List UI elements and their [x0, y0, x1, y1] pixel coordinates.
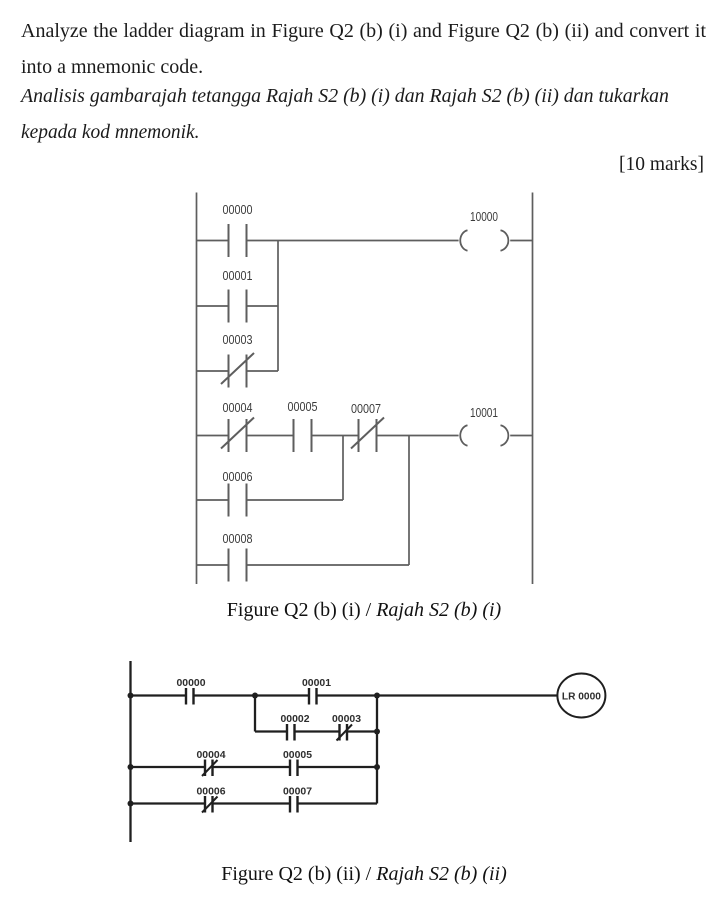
- NC contact 00003 (Fig ii): [337, 724, 353, 741]
- NC contact 00007: [351, 418, 384, 453]
- wire rung3 right segment: [298, 802, 378, 804]
- svg-text:00008: 00008: [223, 531, 253, 546]
- question text line 2: [21, 57, 203, 77]
- svg-text:00006: 00006: [197, 786, 226, 798]
- svg-text:10000: 10000: [470, 209, 498, 224]
- junction dot node E top: [374, 693, 380, 699]
- svg-text:00004: 00004: [197, 749, 226, 761]
- NC contact 00004: [221, 418, 254, 453]
- wire rung2 right segment: [298, 766, 378, 768]
- svg-text:00003: 00003: [332, 713, 361, 725]
- wire rung4 segment 00005-00007: [312, 435, 359, 437]
- wire rung2 left segment: [131, 766, 205, 768]
- svg-text:00000: 00000: [177, 677, 206, 689]
- wire rung2 left segment: [197, 305, 229, 307]
- left power rail (Fig ii): [129, 661, 131, 842]
- junction dot node D: [252, 693, 258, 699]
- wire rung5 left segment: [197, 499, 229, 501]
- wire rung1 left segment: [197, 240, 229, 242]
- svg-text:00003: 00003: [223, 332, 253, 347]
- NO contact 00000 (Fig ii): [186, 688, 194, 705]
- svg-text:00002: 00002: [281, 713, 310, 725]
- svg-text:00007: 00007: [351, 401, 381, 416]
- wire rung4 segment 00007-coil: [377, 435, 459, 437]
- wire rung3 right segment: [247, 370, 279, 372]
- NO contact 00005: [294, 419, 312, 452]
- NO contact 00008: [229, 549, 247, 582]
- wire rung1 segment 00001-coil: [318, 694, 558, 696]
- svg-text:00004: 00004: [223, 400, 253, 415]
- wire subrung left segment: [255, 730, 287, 732]
- svg-text:10001: 10001: [470, 405, 498, 420]
- NC contact 00003: [221, 353, 254, 388]
- NO contact 00006: [229, 484, 247, 517]
- NC contact 00006 (Fig ii): [202, 796, 218, 813]
- svg-text:00006: 00006: [223, 469, 253, 484]
- junction dot rail-rung1: [128, 693, 134, 699]
- wire branch vertical node C (00008 join): [408, 436, 410, 566]
- output coil LR 0000 circle: [557, 674, 605, 718]
- svg-text:00000: 00000: [223, 202, 253, 217]
- svg-text:00001: 00001: [223, 268, 253, 283]
- NO contact 00000: [229, 224, 247, 257]
- NO contact 00002 (Fig ii): [287, 724, 295, 741]
- svg-text:00001: 00001: [302, 677, 331, 689]
- wire rung2 right segment: [247, 305, 279, 307]
- wire rung1 segment 00000-00001: [195, 694, 309, 696]
- NO contact 00005 (Fig ii): [290, 760, 298, 777]
- wire rung1 left segment: [131, 694, 186, 696]
- NO contact 00007 (Fig ii): [290, 796, 298, 813]
- wire rung3 segment 00006-00007: [213, 802, 290, 804]
- wire rung3 left segment: [131, 802, 205, 804]
- wire rung6 left segment: [197, 564, 229, 566]
- marks: [619, 155, 704, 175]
- wire branch vertical node B (00006 join): [342, 436, 344, 501]
- question text line 4 (italic malay): [21, 122, 199, 142]
- wire rung1 middle segment to coil: [247, 240, 459, 242]
- junction dot node E rung2: [374, 764, 380, 770]
- wire rung4 right segment (coil to rail): [510, 435, 532, 437]
- question text line 1: [21, 21, 706, 41]
- NC contact 00004 (Fig ii): [202, 760, 218, 777]
- right power rail (Fig i): [532, 193, 534, 585]
- wire branch vertical node A (parallel 00001/00003): [277, 241, 279, 372]
- svg-text:00005: 00005: [283, 749, 312, 761]
- junction dot rail-rung3: [128, 801, 134, 807]
- wire rung3 left segment: [197, 370, 229, 372]
- caption figure 2: [221, 864, 507, 884]
- wire rung1 right segment (coil to rail): [510, 240, 532, 242]
- svg-text:00007: 00007: [283, 786, 312, 798]
- svg-text:00005: 00005: [288, 399, 318, 414]
- output coil 10001: [460, 425, 508, 445]
- wire subrung right segment: [348, 730, 377, 732]
- caption figure 1: [227, 600, 501, 620]
- NO contact 00001 (Fig ii): [309, 688, 317, 705]
- svg-text:LR 0000: LR 0000: [562, 691, 601, 703]
- NO contact 00001: [229, 290, 247, 323]
- wire rung2 segment 00004-00005: [213, 766, 290, 768]
- wire branch vertical from node D down to subrung: [254, 696, 256, 732]
- wire rung4 left segment: [197, 435, 229, 437]
- question text line 3 (italic malay): [21, 86, 669, 106]
- junction dot rail-rung2: [128, 764, 134, 770]
- wire subrung segment 00002-00003: [296, 730, 340, 732]
- left power rail (Fig i): [196, 193, 198, 585]
- wire right branch vertical node E: [376, 696, 378, 804]
- wire rung4 segment 00004-00005: [247, 435, 294, 437]
- wire rung6 right segment: [247, 564, 410, 566]
- wire rung5 right segment: [247, 499, 344, 501]
- output coil 10000: [460, 230, 508, 250]
- junction dot node E subrung: [374, 729, 380, 735]
